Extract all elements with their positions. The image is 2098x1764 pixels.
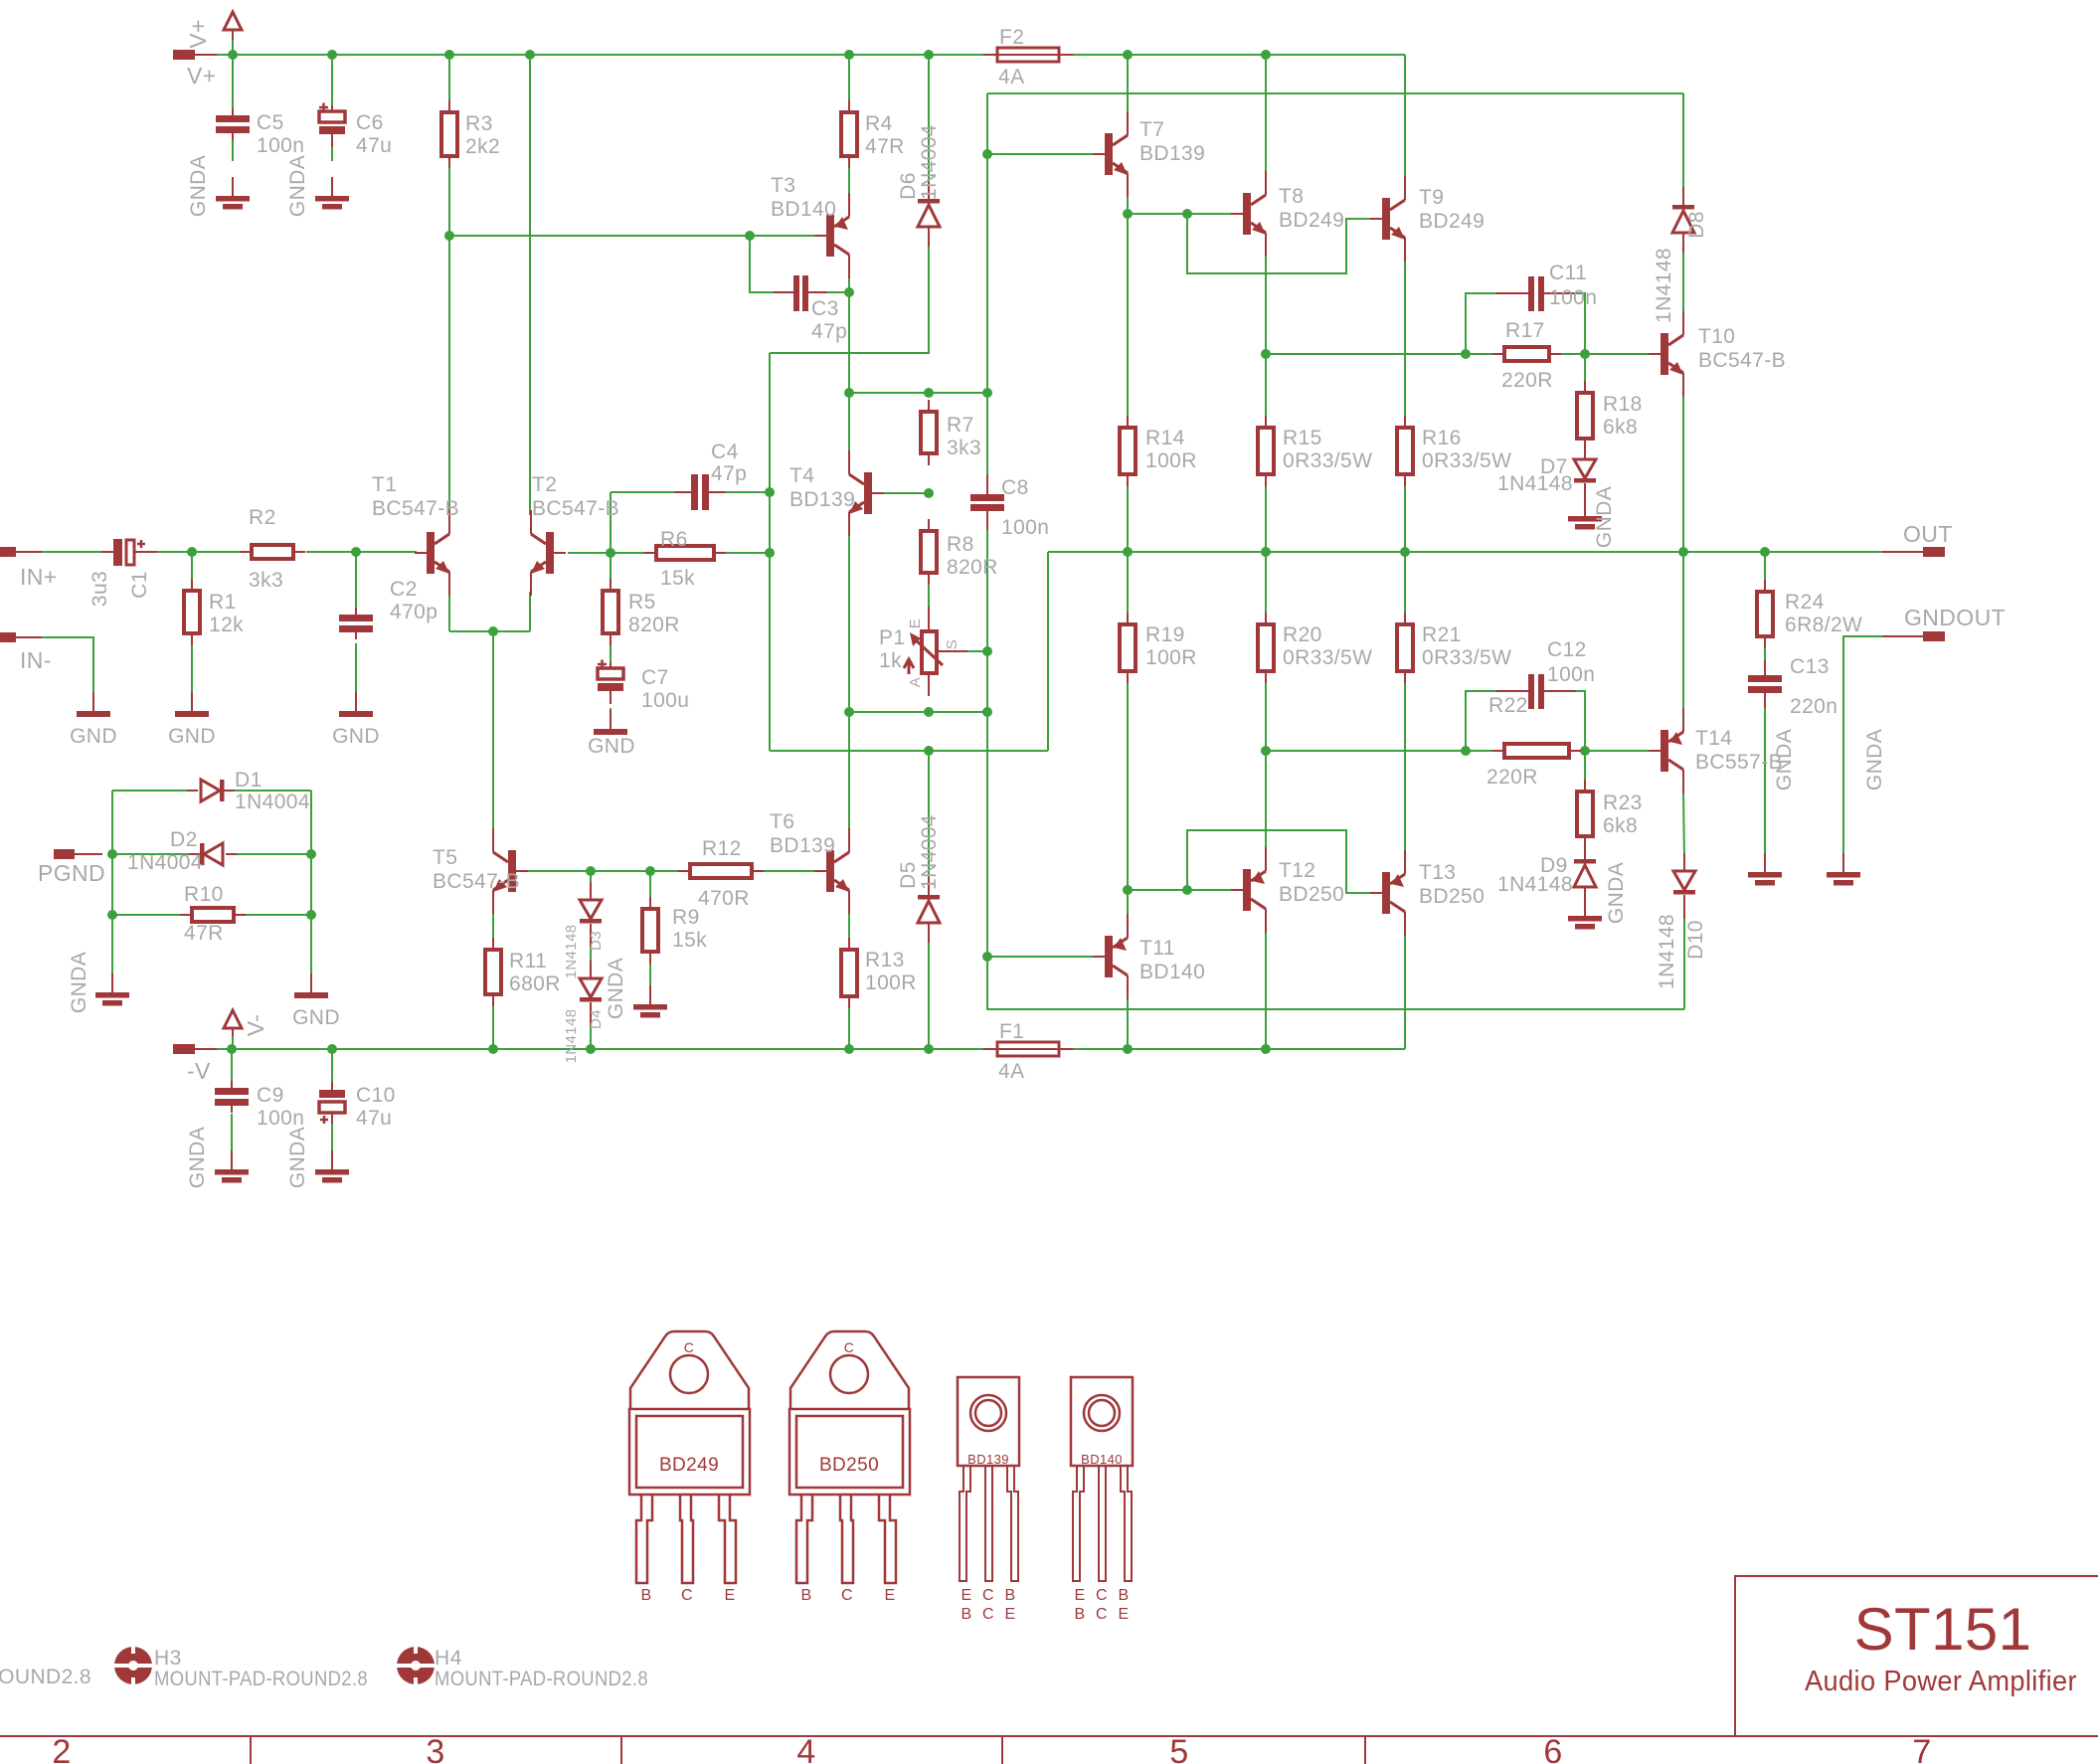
junction R10 left	[107, 910, 117, 920]
svg-text:GNDA: GNDA	[286, 1127, 309, 1188]
svg-text:C7: C7	[641, 666, 669, 689]
wire y395 horizontal	[849, 392, 987, 394]
wire D4 bottom to V- rail	[590, 1012, 592, 1049]
svg-text:C8: C8	[1001, 476, 1029, 499]
wire D1 row right	[231, 790, 311, 792]
wire T8 base drive	[1128, 213, 1232, 215]
title block border	[1735, 1576, 2098, 1736]
svg-text:C: C	[844, 1339, 855, 1355]
svg-text:820R: 820R	[947, 556, 998, 579]
svg-text:C6: C6	[356, 111, 384, 134]
svg-text:100n: 100n	[1547, 663, 1595, 686]
svg-text:R24: R24	[1785, 591, 1825, 614]
pin GNDOUT	[1904, 605, 2006, 641]
frame tick 3/4	[620, 1736, 622, 1764]
wire D3-D4 middle	[590, 935, 592, 967]
junction C12 left	[1461, 746, 1471, 756]
svg-text:B: B	[1118, 1587, 1129, 1604]
package drawing BD249	[629, 1331, 750, 1604]
pin PGND	[38, 849, 105, 886]
junction D4 bottom	[586, 1044, 596, 1054]
svg-text:T7: T7	[1139, 118, 1164, 141]
wire T7 emitter node	[1127, 194, 1129, 214]
transistor T11 BD140	[1093, 914, 1205, 999]
diode D5 1N4004	[897, 814, 941, 943]
svg-text:V+: V+	[187, 63, 217, 88]
svg-text:R3: R3	[465, 112, 493, 135]
svg-text:PGND: PGND	[38, 860, 105, 886]
svg-text:R8: R8	[947, 533, 974, 556]
junction T12 collector rail	[1261, 1044, 1271, 1054]
resistor R24	[1757, 580, 1862, 648]
wire R24 to C13	[1764, 648, 1766, 660]
svg-text:BD249: BD249	[1279, 209, 1344, 232]
svg-text:D3: D3	[588, 931, 605, 951]
svg-text:47R: 47R	[184, 922, 224, 945]
svg-text:R21: R21	[1422, 623, 1462, 646]
wire IN- to GND	[40, 637, 93, 700]
svg-text:BC547-B: BC547-B	[532, 497, 619, 520]
svg-text:T11: T11	[1139, 937, 1175, 960]
svg-text:BD249: BD249	[659, 1455, 719, 1476]
wire D5 bottom to V- rail	[928, 939, 930, 1049]
svg-text:GNDA: GNDA	[187, 155, 210, 217]
wire T14 collector to D10	[1683, 792, 1684, 861]
capacitor C13 220n	[1748, 655, 1837, 718]
svg-text:R15: R15	[1283, 427, 1322, 449]
junction R13 bottom	[844, 1044, 854, 1054]
svg-text:GNDA: GNDA	[1605, 862, 1628, 924]
junction T4 base	[924, 488, 934, 498]
wire PGND right column	[310, 791, 312, 980]
wire x774 through C4 junction	[769, 353, 771, 553]
svg-text:1N4004: 1N4004	[235, 791, 310, 813]
resistor R19	[1120, 613, 1197, 683]
svg-text:E: E	[907, 618, 924, 628]
transistor T9 BD249	[1370, 176, 1485, 262]
svg-text:470p: 470p	[390, 601, 437, 623]
wire R13 bottom to V- rail	[848, 1008, 850, 1049]
junction D5 top y755	[924, 746, 934, 756]
svg-text:3u3: 3u3	[88, 571, 111, 607]
svg-text:B: B	[640, 1587, 651, 1604]
resistor R1	[184, 579, 244, 645]
package drawing BD250	[789, 1331, 910, 1604]
capacitor C12 100n	[1496, 638, 1595, 709]
wire C12 loop left	[1466, 691, 1496, 751]
svg-text:C4: C4	[711, 441, 739, 463]
capacitor C4	[674, 441, 747, 510]
svg-text:T14: T14	[1695, 727, 1732, 750]
svg-text:BD140: BD140	[1139, 961, 1205, 983]
wire R4 column top	[848, 55, 850, 100]
wire C2 column	[355, 552, 357, 611]
svg-text:D10: D10	[1684, 920, 1707, 960]
wire R14 column top	[1127, 214, 1129, 416]
resistor R17	[1492, 319, 1561, 392]
svg-text:15k: 15k	[660, 567, 695, 590]
svg-text:C: C	[982, 1606, 994, 1623]
junction sense y356 start	[1261, 349, 1271, 359]
svg-text:C12: C12	[1547, 638, 1587, 661]
svg-text:BC557-B: BC557-B	[1695, 751, 1783, 774]
resistor R15	[1258, 416, 1372, 486]
wire R24 top	[1764, 552, 1766, 581]
wire C4 row from x614 to C4	[611, 491, 691, 493]
svg-text:1N4004: 1N4004	[918, 124, 941, 200]
svg-text:E: E	[884, 1587, 895, 1604]
svg-text:GND: GND	[292, 1006, 340, 1029]
svg-text:R1: R1	[209, 591, 237, 614]
wire R1 column	[191, 552, 193, 579]
svg-text:BD250: BD250	[1279, 883, 1344, 906]
svg-text:6k8: 6k8	[1603, 814, 1638, 837]
svg-text:R5: R5	[628, 591, 656, 614]
svg-text:2k2: 2k2	[465, 135, 500, 158]
svg-text:T8: T8	[1279, 185, 1304, 208]
junction T3 base node	[444, 231, 454, 241]
ground GND under C2	[332, 692, 380, 748]
wire C1 right to R1 junction	[157, 551, 240, 553]
svg-text:C: C	[684, 1339, 695, 1355]
junction R3 top	[444, 50, 454, 60]
svg-text:BD250: BD250	[1419, 885, 1485, 908]
svg-text:220n: 220n	[1790, 695, 1837, 718]
svg-text:D2: D2	[170, 828, 198, 851]
wire T8 collector to rail	[1265, 55, 1267, 175]
wire T3 collector to C3 junction	[848, 276, 850, 292]
pin OUT	[1903, 521, 1953, 557]
wire C10 column bottom	[331, 1116, 333, 1158]
svg-text:C: C	[1096, 1587, 1108, 1604]
capacitor C1 3u3 input electrolytic	[88, 539, 157, 607]
svg-text:C: C	[1096, 1606, 1108, 1623]
diode D8 1N4148	[1653, 187, 1708, 323]
svg-text:GNDA: GNDA	[605, 958, 627, 1019]
svg-text:T3: T3	[771, 174, 795, 197]
junction T5 base D3	[586, 866, 596, 876]
wire node B to R6	[611, 552, 644, 554]
wire D10 column lower	[1683, 915, 1685, 1009]
capacitor C11 100n	[1496, 262, 1597, 311]
transistor T3 BD140	[771, 174, 849, 278]
wire T4 base to R7/R8 node	[884, 492, 929, 494]
wire R20 top	[1265, 552, 1267, 624]
svg-text:47p: 47p	[811, 320, 847, 343]
svg-text:E: E	[1004, 1606, 1015, 1623]
resistor R18	[1577, 381, 1643, 450]
svg-text:C13: C13	[1790, 655, 1830, 678]
fuse F1 4A	[983, 1020, 1073, 1083]
svg-text:1N4004: 1N4004	[918, 814, 941, 890]
svg-text:S: S	[944, 639, 961, 649]
junction T13 drive tap	[1182, 885, 1192, 895]
svg-text:T5: T5	[433, 846, 457, 869]
wire D1 row left	[112, 790, 191, 792]
wire T10 emitter to OUT rail	[1682, 395, 1684, 552]
junction R16 bottom OUT	[1400, 547, 1410, 557]
ground GND under R1	[168, 692, 216, 748]
svg-text:BD249: BD249	[1419, 210, 1485, 233]
wire IN+ pin stub	[16, 551, 42, 553]
svg-text:V+: V+	[185, 19, 211, 49]
svg-text:R6: R6	[660, 528, 688, 551]
junction sense y755 start	[1261, 746, 1271, 756]
svg-text:1N4148: 1N4148	[563, 925, 580, 979]
svg-text:T2: T2	[532, 473, 557, 496]
svg-text:E: E	[1118, 1606, 1129, 1623]
wire R10 row right	[246, 914, 311, 916]
svg-text:E: E	[1074, 1587, 1085, 1604]
junction R6 right x774	[765, 548, 775, 558]
junction D6 top	[924, 50, 934, 60]
resistor R5	[603, 579, 680, 645]
wire IN- pin stub	[16, 636, 42, 638]
wire R21 bottom to T13 emitter	[1404, 671, 1406, 853]
svg-text:D1: D1	[235, 769, 262, 792]
capacitor C2	[339, 578, 437, 639]
resistor R4	[841, 100, 905, 168]
junction T4 emitter y716	[844, 707, 854, 717]
svg-text:GNDA: GNDA	[1863, 729, 1886, 791]
ground GNDA under C6	[286, 155, 349, 217]
wire bias bottom horizontal y755	[770, 750, 1048, 752]
svg-text:3k3: 3k3	[947, 437, 981, 459]
svg-text:R13: R13	[865, 949, 905, 971]
junction T7 collector rail	[1123, 50, 1133, 60]
svg-text:D6: D6	[897, 172, 920, 200]
svg-text:7: 7	[1912, 1733, 1931, 1764]
svg-text:3k3: 3k3	[249, 569, 283, 592]
wire GNDOUT to GNDA	[1843, 636, 1882, 860]
svg-text:1k: 1k	[879, 649, 902, 672]
mount pad H3	[113, 1646, 368, 1690]
wire node to C3 left	[750, 236, 774, 292]
wire T1 emitter down	[448, 592, 450, 631]
wire R12 right to T6 base	[764, 870, 814, 872]
wire R1 bottom to GND	[191, 645, 193, 700]
svg-text:1N4148: 1N4148	[1497, 873, 1573, 896]
wire T2 base to node B	[568, 552, 611, 554]
resistor R10	[180, 883, 246, 945]
transistor T12 BD250	[1231, 847, 1344, 933]
junction C6 top	[327, 50, 337, 60]
svg-text:1N4148: 1N4148	[1497, 472, 1573, 495]
svg-text:C: C	[982, 1587, 994, 1604]
package drawing BD139	[958, 1377, 1019, 1623]
junction R22 right	[1580, 746, 1590, 756]
resistor R11	[485, 938, 561, 1006]
svg-text:1N4148: 1N4148	[1656, 914, 1678, 989]
svg-text:BD139: BD139	[770, 834, 835, 857]
svg-text:Audio Power Amplifier: Audio Power Amplifier	[1805, 1666, 2077, 1697]
transistor T1 BC547-B	[372, 473, 459, 596]
wire x993 y395 to C8 top	[986, 393, 988, 474]
svg-text:V-: V-	[243, 1014, 268, 1037]
wire V+ top rail right of fuse F2	[1059, 54, 1405, 56]
svg-text:D4: D4	[588, 1009, 605, 1029]
svg-text:T9: T9	[1419, 186, 1444, 209]
diode D1 1N4004	[187, 769, 310, 813]
wire C10 column top	[331, 1049, 333, 1088]
frame tick 2/3	[250, 1736, 252, 1764]
wire C6 column bottom	[331, 129, 333, 161]
wire x854 y395 to T4 collector	[848, 393, 850, 454]
wire T9 emitter to R16	[1404, 261, 1406, 428]
capacitor C10	[319, 1082, 396, 1130]
ground GND under C7	[588, 710, 635, 758]
svg-text:-V: -V	[187, 1058, 211, 1084]
wire R14 bottom to OUT rail	[1127, 486, 1129, 552]
svg-text:47u: 47u	[356, 134, 392, 157]
wire R19 bottom to T11 node	[1127, 683, 1129, 890]
svg-text:100n: 100n	[257, 134, 304, 157]
svg-text:T13: T13	[1419, 861, 1456, 884]
svg-text:220R: 220R	[1501, 369, 1553, 392]
svg-text:BD139: BD139	[1139, 142, 1205, 165]
transistor T10 BC547-B	[1649, 311, 1786, 397]
svg-text:P1: P1	[879, 626, 906, 649]
junction T7 emitter node	[1123, 209, 1133, 219]
wire V+ top rail left of fuse F2	[214, 54, 997, 56]
wire x854 C3 junction down to y395	[848, 292, 850, 393]
svg-text:100R: 100R	[1145, 449, 1197, 472]
junction R11 bottom	[488, 1044, 498, 1054]
wire C12 loop right	[1576, 691, 1585, 751]
wire x854 T4 emitter to y716	[848, 535, 850, 712]
junction PGND pin	[107, 849, 117, 859]
svg-text:0R33/5W: 0R33/5W	[1422, 449, 1511, 472]
wire D8 column top	[1682, 93, 1684, 197]
wire D3 top	[590, 871, 592, 889]
wire GNDOUT pin stub	[1882, 635, 1923, 637]
svg-text:BD140: BD140	[1081, 1452, 1123, 1467]
svg-text:R9: R9	[672, 906, 700, 929]
svg-text:0R33/5W: 0R33/5W	[1283, 449, 1372, 472]
V- supply arrow symbol	[224, 1010, 268, 1036]
wire R5 bottom to C7	[610, 645, 612, 664]
wire R21 top	[1404, 552, 1406, 624]
wire x993 y94 down to T7 base junction	[986, 93, 988, 154]
resistor R8	[921, 519, 998, 585]
svg-text:BC547-B: BC547-B	[1698, 349, 1786, 372]
diode D7 1N4148	[1574, 441, 1596, 507]
potentiometer P1 1k	[879, 607, 967, 696]
svg-text:E: E	[724, 1587, 735, 1604]
wire input main horizontal IN+ to T1 base	[40, 551, 101, 553]
svg-text:820R: 820R	[628, 614, 680, 636]
svg-text:4A: 4A	[998, 66, 1025, 88]
mount pad H4	[396, 1646, 648, 1690]
svg-text:R17: R17	[1505, 319, 1545, 342]
ground GNDA under C13	[1748, 729, 1796, 886]
ground GNDA under C10	[286, 1127, 349, 1188]
capacitor C6	[319, 103, 392, 158]
wire D6 anode down and left to x774	[770, 243, 929, 353]
wire C2 bottom to GND	[355, 643, 357, 700]
ground GND under IN-	[70, 692, 117, 748]
junction T9 drive tap	[1182, 209, 1192, 219]
svg-text:B: B	[1004, 1587, 1015, 1604]
wire R16 bottom to OUT rail	[1404, 474, 1406, 552]
svg-text:B: B	[800, 1587, 811, 1604]
ground GNDA under D9	[1568, 862, 1628, 930]
svg-text:R11: R11	[509, 950, 547, 972]
wire emitters horizontal	[449, 630, 530, 632]
wire R8 bottom to P1	[928, 585, 930, 611]
resistor R22	[1486, 694, 1581, 789]
wire R17 right segment	[1549, 353, 1661, 355]
svg-text:C9: C9	[257, 1084, 284, 1107]
wire R2 right to T1 base	[306, 551, 417, 553]
wire bias chain bottom y716	[849, 711, 987, 713]
svg-text:BD139: BD139	[967, 1452, 1009, 1467]
svg-text:GND: GND	[168, 725, 216, 748]
wire -V pin stub	[195, 1048, 217, 1050]
svg-text:F2: F2	[999, 26, 1024, 49]
svg-text:R10: R10	[184, 883, 224, 906]
svg-text:R23: R23	[1603, 792, 1643, 814]
svg-text:470R: 470R	[698, 887, 750, 910]
wire V+ arrow stem	[232, 38, 234, 55]
svg-text:T6: T6	[770, 810, 794, 833]
svg-text:T4: T4	[789, 464, 814, 487]
wire D2 row right	[232, 853, 311, 855]
svg-text:12k: 12k	[209, 614, 244, 636]
resistor R12	[678, 837, 764, 910]
resistor R14	[1120, 416, 1197, 486]
svg-text:100R: 100R	[1145, 646, 1197, 669]
ground GNDA left PGND	[68, 952, 129, 1013]
junction T5 base R9	[645, 866, 655, 876]
wire D8 anode to T10 collector	[1682, 249, 1684, 314]
svg-text:6: 6	[1543, 1733, 1562, 1764]
wire R11 bottom to V- rail	[492, 1006, 494, 1049]
resistor R2	[240, 506, 305, 592]
svg-text:15k: 15k	[672, 929, 707, 952]
wire T12 collector to V- rail	[1265, 932, 1267, 1049]
wire R20 bottom to T12 emitter	[1265, 671, 1267, 851]
svg-text:BD250: BD250	[819, 1455, 879, 1476]
wire T9 base loop	[1187, 214, 1370, 273]
wire V- arrow stem	[232, 1034, 234, 1049]
junction R1 top	[187, 547, 197, 557]
transistor T8 BD249	[1231, 171, 1344, 257]
diode D6 1N4004	[897, 124, 941, 247]
svg-text:D5: D5	[897, 861, 920, 889]
wire x1054 up to OUT rail	[1047, 552, 1049, 751]
wire C7 bottom to GND	[610, 708, 612, 718]
junction y395 x854	[844, 388, 854, 398]
ground GNDA under C5	[187, 155, 250, 217]
wire V+ pin stub	[195, 54, 217, 56]
wire R3 column top	[448, 55, 450, 100]
wire tail current source drop	[492, 631, 494, 833]
diode D3 1N4148	[563, 882, 605, 978]
junction R24 top OUT	[1760, 547, 1770, 557]
svg-text:C: C	[681, 1587, 693, 1604]
svg-text:R18: R18	[1603, 393, 1643, 416]
svg-text:ST151: ST151	[1854, 1596, 2032, 1663]
svg-text:D8: D8	[1685, 211, 1708, 239]
svg-text:GNDA: GNDA	[286, 155, 309, 217]
capacitor C9	[215, 1081, 304, 1130]
resistor R21	[1397, 613, 1511, 683]
wire top rail drop to T9 collector	[1404, 55, 1406, 180]
wire R4 to T3 emitter	[848, 168, 850, 196]
resistor R9	[642, 897, 707, 964]
svg-text:C11: C11	[1549, 262, 1587, 284]
